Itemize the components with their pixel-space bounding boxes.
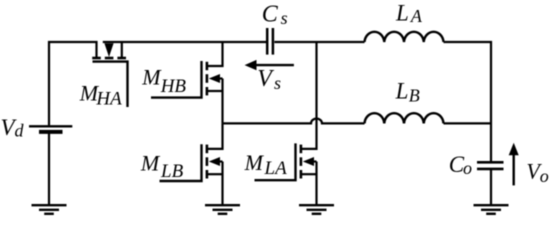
M_LB channel dashes (206, 145, 209, 179)
ground (under M_LA) (299, 205, 334, 214)
svg-text:d: d (15, 121, 25, 141)
transistor M_LA drain line from top wire down through hop, drain stub (301, 42, 317, 149)
svg-text:A: A (410, 6, 423, 26)
svg-text:LB: LB (160, 161, 184, 182)
svg-text:M: M (140, 151, 161, 176)
svg-text:B: B (409, 86, 420, 106)
svg-text:LA: LA (264, 158, 288, 179)
svg-text:C: C (262, 1, 279, 27)
ground (under M_LB) (205, 205, 240, 214)
wire: top node from M_HA source to C_s left plate (103, 41, 266, 43)
inductor L_B (365, 113, 444, 123)
transistor M_HB channel dashes (206, 62, 209, 96)
svg-text:HA: HA (95, 89, 122, 110)
svg-text:s: s (274, 73, 281, 93)
wire: C_o bottom to ground (490, 170, 492, 204)
V_s arrow (pointing left) (256, 64, 294, 66)
M_LA source line to ground (315, 162, 317, 205)
M_HB body arrow (209, 74, 220, 83)
M_HB source stub (207, 90, 223, 92)
svg-text:V: V (257, 66, 274, 92)
svg-text:HB: HB (160, 76, 187, 97)
wire: battery negative down to ground (48, 132, 50, 204)
M_HA gate bar and gate wire going down (93, 62, 128, 107)
svg-text:L: L (395, 0, 409, 25)
transistor M_HA (horizontal NMOS): body arrow pointing down (104, 43, 113, 57)
wire: L_A right to right rail, down to C_o (444, 42, 492, 161)
inductor L_A (365, 32, 444, 42)
M_LA channel dashes (300, 145, 303, 179)
wire: mid node wire to L_B with hop over M_LA drain line (223, 119, 365, 124)
wire: top-left wire from battery up and right to M_HA drain stub (49, 42, 97, 125)
svg-text:M: M (244, 150, 265, 175)
M_LB body arrow (209, 157, 220, 166)
svg-text:s: s (281, 8, 288, 28)
wire: C_s right plate to L_A (274, 41, 364, 43)
svg-text:M: M (141, 64, 162, 89)
svg-text:L: L (395, 78, 409, 103)
wire: L_B right to right rail (444, 122, 492, 124)
M_LB source stub (207, 173, 223, 175)
capacitor C_o plates (477, 161, 504, 164)
svg-text:o: o (540, 166, 549, 186)
M_HB source/body line down to mid node (221, 79, 223, 124)
M_LA source stub (301, 173, 317, 175)
V_o arrow (pointing up) (513, 155, 515, 186)
ground (left, under battery) (32, 205, 67, 214)
M_HB gate wire and gate bar (151, 61, 202, 98)
M_HA channel dashes (92, 57, 126, 60)
battery V_d short plate (39, 130, 63, 134)
svg-text:o: o (463, 158, 472, 178)
capacitor C_s plates (266, 28, 269, 55)
M_LB gate wire and gate bar (160, 144, 202, 181)
M_LA body arrow (303, 157, 314, 166)
wire: M_HB drain from top wire down, drain stub (207, 42, 223, 66)
battery V_d long plate (29, 125, 72, 127)
M_LA gate wire and gate bar (255, 143, 296, 180)
transistor M_LB drain from mid node down, drain stub (207, 123, 223, 148)
M_HA right (source) stub (121, 42, 123, 57)
ground (under C_o) (474, 205, 509, 214)
M_LB source line to ground (221, 162, 223, 205)
